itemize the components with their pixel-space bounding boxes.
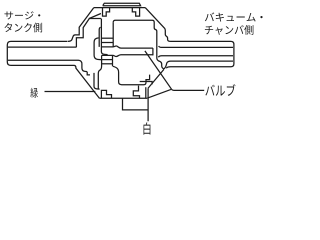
body outline lower-right diagonal — [148, 70, 164, 89]
cap inner wall and seat column left vertical — [101, 19, 107, 55]
lower chamber cup — [113, 66, 150, 84]
cap top bar — [103, 3, 141, 5]
spring profile left of column — [94, 38, 101, 60]
body inner top line under cap — [113, 20, 157, 44]
bottom right snap hook — [133, 86, 139, 99]
label: vac2 チャンバ側 — [205, 25, 254, 35]
left pipe outer (surge tank side nipple) — [7, 41, 99, 98]
column rung upper 1 — [101, 37, 113, 39]
column rung lower 1 — [102, 59, 113, 61]
leader line to valve label — [145, 51, 204, 91]
diaphragm left S-curve — [98, 55, 101, 88]
column rung lower 2 — [102, 63, 113, 65]
label: valve バルブ — [205, 84, 235, 96]
column lower verticals — [112, 55, 114, 66]
bottom right hook vertical — [145, 87, 147, 98]
body outline upper-right shoulder diagonal — [145, 8, 171, 42]
right passage bottom wall with seat lip — [158, 56, 233, 57]
bottom plate line — [99, 97, 147, 99]
label: white 白 — [144, 122, 151, 134]
left pipe inner bottom wall — [8, 60, 87, 71]
column rung upper 2 — [101, 42, 113, 44]
right boss bottom corner to tip — [166, 67, 170, 68]
label: green 緑 — [30, 88, 38, 98]
retainer shelf — [140, 82, 152, 85]
cap right snap hook — [132, 8, 139, 17]
label: surge1 サージ・ — [5, 11, 41, 19]
seat column right vertical — [112, 22, 114, 47]
label: surge2 タンク側 — [5, 23, 43, 33]
bottom left snap hook — [101, 90, 111, 98]
inner rib left — [89, 18, 101, 20]
valve stem bottom line with head hump — [102, 55, 153, 57]
body outline upper-left shoulder — [68, 8, 94, 42]
right pipe outer (vacuum chamber side nipple) — [171, 41, 234, 66]
valve stem top line with head hump — [101, 46, 152, 48]
right bore top wall with seat lip — [159, 46, 233, 47]
lower-left chamber wall — [94, 73, 100, 89]
cap flange top line — [94, 7, 145, 9]
cap left snap hook — [103, 8, 110, 17]
leader line to white label — [123, 89, 149, 122]
right bore bottom wall with flare — [164, 61, 233, 69]
inner liner left of column — [99, 27, 100, 47]
label: vac1 バキューム・ — [205, 12, 263, 21]
bottom right chamfer diagonal — [147, 89, 171, 98]
lower-left nested corner inner — [87, 72, 90, 75]
left pipe inner top wall — [8, 46, 77, 48]
leader line to green label — [45, 91, 96, 93]
valve disc edge — [152, 48, 154, 55]
inner shoulder contour left — [76, 14, 101, 48]
right chamber wall and tip — [157, 45, 164, 70]
